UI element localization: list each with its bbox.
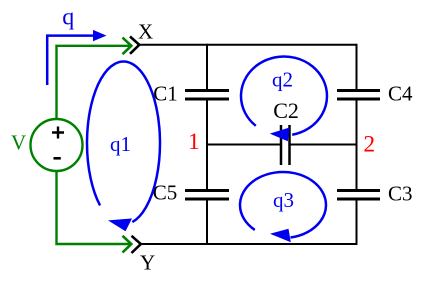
wire: left inner branch from top wire to C1 (206, 44, 208, 90)
loop q3 circle (240, 172, 326, 237)
wire: right branch between C4 and C3 through node 2 (356, 100, 358, 191)
charge q arrow (blue) (47, 36, 94, 85)
loop q3 arrowhead (270, 229, 291, 242)
svg-text:1: 1 (188, 129, 200, 155)
svg-text:Y: Y (140, 250, 155, 274)
wire: right branch below C3 to bottom wire (356, 200, 358, 246)
wire: green wire source bottom to Y (57, 171, 132, 244)
svg-text:q3: q3 (273, 188, 294, 212)
svg-text:C1: C1 (153, 81, 178, 105)
capacitor C1 plates (185, 91, 229, 100)
node Y black chevron (132, 236, 141, 253)
svg-text:C4: C4 (388, 82, 413, 106)
green chevron at X (123, 38, 132, 55)
capacitor C4 plates (337, 91, 380, 100)
svg-text:2: 2 (363, 132, 375, 158)
loop q2 arrowhead (270, 128, 290, 142)
svg-text:C2: C2 (273, 98, 299, 123)
svg-text:X: X (138, 20, 153, 44)
svg-text:C5: C5 (153, 180, 178, 204)
wire: middle wire C2 right plate to node 2 (291, 144, 357, 146)
capacitor C5 plates (185, 191, 229, 200)
wire: left inner branch below C5 to bottom wire (206, 200, 208, 246)
loop q1 arrowhead (108, 218, 132, 231)
wire: left inner branch between C1 and C5 through node 1 (206, 100, 208, 191)
voltage source plus sign (52, 127, 64, 139)
loop q1 ellipse (87, 61, 160, 222)
wire: bottom wire from Y to bottom-right corner (141, 243, 357, 245)
loop q2 circle (241, 56, 327, 134)
wire: green wire source top to X (57, 46, 132, 119)
wire: top wire from X to top-right corner (140, 44, 357, 46)
voltage source minus sign (54, 157, 61, 160)
wire: right branch x=356.5 top segment to C4 (356, 44, 358, 90)
node X black chevron (130, 37, 139, 54)
voltage source V circle (31, 119, 83, 171)
svg-text:V: V (11, 131, 26, 155)
capacitor C3 plates (337, 191, 380, 200)
green chevron at Y (123, 236, 132, 253)
wire: middle wire node1 to C2 left plate (207, 144, 280, 146)
svg-text:C3: C3 (388, 182, 413, 206)
svg-text:q1: q1 (110, 132, 131, 156)
capacitor C2 plates (vertical) (281, 125, 290, 165)
svg-text:q2: q2 (272, 68, 293, 92)
svg-text:q: q (62, 5, 74, 31)
charge q arrowhead (93, 30, 107, 41)
